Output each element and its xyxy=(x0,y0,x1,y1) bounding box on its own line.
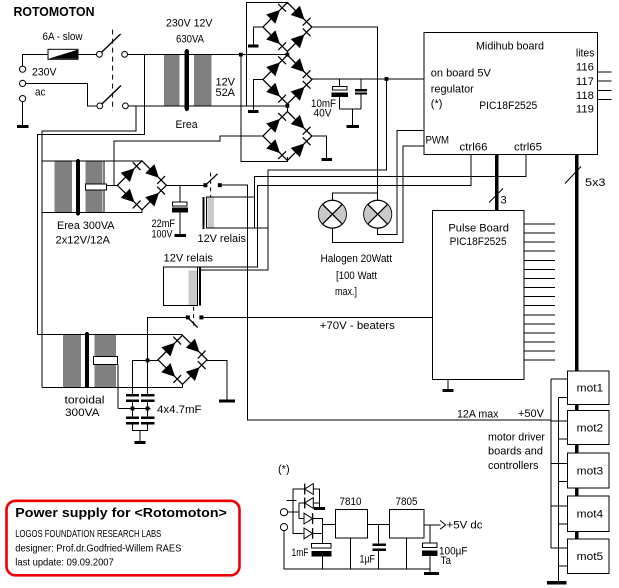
wire diode ladder right to ground xyxy=(313,489,319,507)
svg-text:regulator: regulator xyxy=(431,83,474,95)
ground D1 D2 xyxy=(314,507,325,510)
svg-text:119: 119 xyxy=(576,104,594,116)
midihub board U1 xyxy=(424,33,597,155)
bridge rectifier BR1 xyxy=(263,3,312,52)
label 3 with slash xyxy=(489,189,507,207)
svg-text:ctrl66: ctrl66 xyxy=(460,142,488,154)
svg-text:mot4: mot4 xyxy=(577,509,604,521)
ground C3 xyxy=(174,234,186,237)
svg-text:117: 117 xyxy=(576,76,594,88)
ground BR5 xyxy=(219,399,235,402)
svg-text:Power supply for <Rotomoton>: Power supply for <Rotomoton> xyxy=(15,506,227,520)
svg-text:230V: 230V xyxy=(32,67,57,79)
svg-text:Halogen 20Watt: Halogen 20Watt xyxy=(321,253,393,265)
wire +70V to pulse board xyxy=(203,316,432,318)
ground caps xyxy=(134,441,145,444)
wire diode ladder left xyxy=(286,489,304,533)
svg-text:designer: Prof.dr.Godfried-Wil: designer: Prof.dr.Godfried-Willem RAES xyxy=(15,543,181,555)
box mot2 xyxy=(567,410,609,444)
wire AC1 rail T1 top xyxy=(241,54,288,56)
regulator U3 7810 xyxy=(335,510,367,538)
terminal 230V neutral xyxy=(20,80,26,86)
wire lamp L1 return to midihub xyxy=(332,146,424,243)
fuse F1 6A slow xyxy=(48,49,78,59)
wire BR4 bottom stub xyxy=(141,210,143,213)
arrow +5V output xyxy=(440,521,446,530)
wire BR2 minus to ground xyxy=(253,80,263,110)
wire BR1 top feed xyxy=(246,3,287,106)
wire +12V to relay commons xyxy=(201,79,387,270)
wire T2 centre tap to BR4 xyxy=(106,184,117,186)
wire S2 to +50V chain xyxy=(222,185,551,420)
node caps mid left xyxy=(131,407,135,411)
svg-text:ROTOMOTON: ROTOMOTON xyxy=(14,4,95,19)
box mot5 xyxy=(567,539,609,573)
svg-text:max.]: max.] xyxy=(335,286,357,298)
wire BR4 plus to switch xyxy=(166,184,203,186)
capacitor C6 1uF xyxy=(372,525,386,569)
capacitor C3 22mF 100V xyxy=(172,185,188,234)
regulator U4 7805 xyxy=(389,510,424,538)
wire centre tap to middle rail xyxy=(117,364,119,408)
pulse board U2 xyxy=(433,210,525,379)
wire BR2 stubs xyxy=(286,55,288,106)
svg-text:(*): (*) xyxy=(431,98,443,110)
svg-text:toroidal: toroidal xyxy=(65,395,105,407)
svg-text:Midihub board: Midihub board xyxy=(476,41,544,53)
svg-text:Pulse Board: Pulse Board xyxy=(448,223,509,235)
node +12V tap xyxy=(385,77,389,81)
switch S2 relay contact xyxy=(203,174,221,187)
svg-text:controllers: controllers xyxy=(488,460,539,472)
ground BR2 xyxy=(248,110,259,113)
box mot4 xyxy=(567,496,609,532)
wire 7805 ground pin xyxy=(406,538,408,569)
switch S3 beater contact xyxy=(186,315,204,327)
diode D2 xyxy=(305,498,314,509)
wire phase to fuse xyxy=(23,54,48,66)
transformer T3 toroidal 300VA xyxy=(38,332,183,388)
wire neutral to switch pole2 xyxy=(26,83,97,106)
diode D3 xyxy=(304,513,313,524)
svg-text:630VA: 630VA xyxy=(176,34,205,46)
wire BR3 minus to BR4 area xyxy=(114,136,263,185)
box mot3 xyxy=(567,453,609,488)
svg-text:PIC18F2525: PIC18F2525 xyxy=(450,236,507,248)
svg-text:12V relais: 12V relais xyxy=(198,233,247,245)
svg-text:PWM: PWM xyxy=(426,135,450,147)
svg-text:on board 5V: on board 5V xyxy=(431,68,492,80)
svg-text:4x4.7mF: 4x4.7mF xyxy=(157,404,202,416)
svg-text:1µF: 1µF xyxy=(360,554,376,566)
wire pulse board output pins xyxy=(524,224,555,360)
svg-text:boards and: boards and xyxy=(488,446,543,458)
svg-text:Ta: Ta xyxy=(441,555,452,567)
ground mains earth xyxy=(17,102,29,127)
wire motor supply ladder A xyxy=(551,379,568,548)
capacitor C7 100uF Ta xyxy=(422,525,438,569)
capacitor bank C4 4x4.7mF xyxy=(126,394,154,424)
wire caps middle rail xyxy=(119,402,151,417)
lamp L2 halogen xyxy=(364,200,392,228)
node AC1 junction xyxy=(239,53,243,57)
wire midihub pin to K2 xyxy=(198,155,471,268)
svg-text:40V: 40V xyxy=(314,108,333,120)
ground pulse board xyxy=(443,389,454,392)
wire BR1 plus to lamps xyxy=(312,27,378,200)
terminal 230V phase xyxy=(20,66,26,72)
ground regulator rail xyxy=(424,572,439,575)
wire BR5 bottom stub xyxy=(182,384,184,387)
svg-text:7805: 7805 xyxy=(396,496,418,508)
wire AC2 rail T1 bottom xyxy=(241,105,288,107)
svg-text:3: 3 xyxy=(501,195,507,207)
wire switch pole1 to T1 xyxy=(128,53,145,55)
svg-text:116: 116 xyxy=(576,62,594,74)
svg-text:7810: 7810 xyxy=(340,496,362,508)
svg-text:mot3: mot3 xyxy=(577,466,604,478)
svg-text:100V: 100V xyxy=(152,229,174,241)
wire motor bus thick segments xyxy=(575,401,579,544)
node caps mid right xyxy=(146,407,150,411)
svg-text:118: 118 xyxy=(576,90,594,102)
wire switch pole2 to T1 xyxy=(128,105,144,107)
ground BR1 xyxy=(248,45,259,48)
wire S3 to BR5 minus xyxy=(148,317,186,360)
switch S1b mains pole 2 xyxy=(97,86,128,109)
ground BR3 xyxy=(321,158,332,161)
terminal regulator input minus xyxy=(280,524,287,531)
svg-text:(*): (*) xyxy=(278,464,290,476)
wire fuse to switch pole1 xyxy=(78,53,96,55)
wire caps bottom to ground xyxy=(133,425,148,442)
wire C1 C2 common xyxy=(340,109,361,125)
svg-text:Erea: Erea xyxy=(176,119,199,131)
svg-text:2x12V/12A: 2x12V/12A xyxy=(56,235,111,247)
wire BR1 minus to ground xyxy=(253,27,263,45)
wire BR5 plus to ground xyxy=(207,360,227,399)
terminal regulator input plus xyxy=(280,509,287,516)
terminal earth xyxy=(20,96,26,102)
svg-text:mot2: mot2 xyxy=(577,423,604,435)
wire mains feed A to lower transformers xyxy=(42,106,136,388)
ground motor ladder xyxy=(547,581,567,584)
capacitor C2 xyxy=(355,79,367,109)
node BR1-BR2 junction xyxy=(286,53,290,57)
diode D1 xyxy=(305,484,314,495)
wire mains feed B to lower transformers xyxy=(38,106,145,334)
wire 7805 output xyxy=(424,524,441,526)
wire ctrl65 to K1 xyxy=(255,155,526,197)
wire diodes to 7810 xyxy=(313,519,336,544)
wire +12V rail BR2 to midihub xyxy=(312,78,424,80)
bridge rectifier BR5 xyxy=(158,335,207,384)
svg-text:ac: ac xyxy=(35,87,46,99)
svg-text:motor driver: motor driver xyxy=(488,432,545,444)
switch S1a mains pole 1 xyxy=(97,34,128,57)
wire pulse board ground xyxy=(447,379,449,389)
node BR5 minus junction xyxy=(146,359,150,363)
svg-text:mot1: mot1 xyxy=(577,383,604,395)
svg-text:5x3: 5x3 xyxy=(585,177,606,189)
wire BR1 stubs xyxy=(286,3,288,55)
svg-text:52A: 52A xyxy=(216,87,236,99)
bridge rectifier BR2 xyxy=(263,55,312,104)
wire BR5 minus to caps xyxy=(133,360,159,394)
bridge rectifier BR4 xyxy=(117,161,166,210)
relay K2 12V relais xyxy=(164,267,201,306)
lamp L1 halogen xyxy=(319,200,347,228)
capacitor C5 1mF xyxy=(311,544,331,569)
wire BR3 stubs xyxy=(286,106,288,161)
bridge rectifier BR3 xyxy=(263,112,312,161)
svg-text:LOGOS FOUNDATION RESEARCH LABS: LOGOS FOUNDATION RESEARCH LABS xyxy=(15,528,161,540)
wire 7810 out to 7805 xyxy=(368,524,390,526)
transformer T1 Erea 630VA xyxy=(145,49,241,111)
capacitor C1 10mF 40V xyxy=(332,79,349,109)
svg-text:1mF: 1mF xyxy=(292,547,309,559)
titleblock red box xyxy=(7,501,240,576)
ground C1 C2 xyxy=(346,125,359,128)
wire BR3 plus to ground xyxy=(312,136,327,158)
switch S1 linkage dashed xyxy=(112,30,114,111)
node BR2-BR3 junction xyxy=(286,104,290,108)
svg-text:230V 12V: 230V 12V xyxy=(166,18,213,30)
svg-text:12A max: 12A max xyxy=(457,409,499,421)
svg-text:[100 Watt: [100 Watt xyxy=(336,270,377,282)
box mot1 xyxy=(567,371,609,405)
svg-text:300VA: 300VA xyxy=(65,407,100,419)
svg-text:12V relais: 12V relais xyxy=(164,253,214,265)
svg-text:mot5: mot5 xyxy=(577,551,604,563)
wire K2 linkage dashed xyxy=(193,307,195,328)
wire regulator bottom rail xyxy=(284,531,430,572)
transformer T2 Erea 300VA xyxy=(42,159,142,216)
wire bus ctrl66 3-wire thick xyxy=(495,155,499,211)
svg-text:lites: lites xyxy=(576,48,595,60)
svg-text:+5V dc: +5V dc xyxy=(447,520,484,532)
wire lites outputs xyxy=(597,72,611,99)
svg-text:Erea 300VA: Erea 300VA xyxy=(57,220,115,232)
svg-text:+50V: +50V xyxy=(518,408,545,420)
svg-text:ctrl65: ctrl65 xyxy=(514,142,542,154)
svg-text:6A - slow: 6A - slow xyxy=(43,31,83,43)
label 5x3 with slash xyxy=(565,167,606,190)
wire 7810 ground pin xyxy=(349,538,351,569)
wire motor return ladder B xyxy=(559,397,568,581)
wire lamp L2 return to midihub xyxy=(378,131,425,235)
svg-text:last update: 09.09.2007: last update: 09.09.2007 xyxy=(15,557,114,569)
wire BR3 bottom feed xyxy=(241,55,288,162)
wire lamp tops xyxy=(332,193,377,200)
relay K1 12V relais xyxy=(203,197,255,229)
svg-text:+70V - beaters: +70V - beaters xyxy=(320,320,396,332)
wire bus ctrl65 5x3 thick xyxy=(575,155,579,375)
svg-text:PIC18F2525: PIC18F2525 xyxy=(479,100,537,112)
diode D4 xyxy=(304,528,313,539)
wire S2 linkage dashed xyxy=(210,173,212,197)
